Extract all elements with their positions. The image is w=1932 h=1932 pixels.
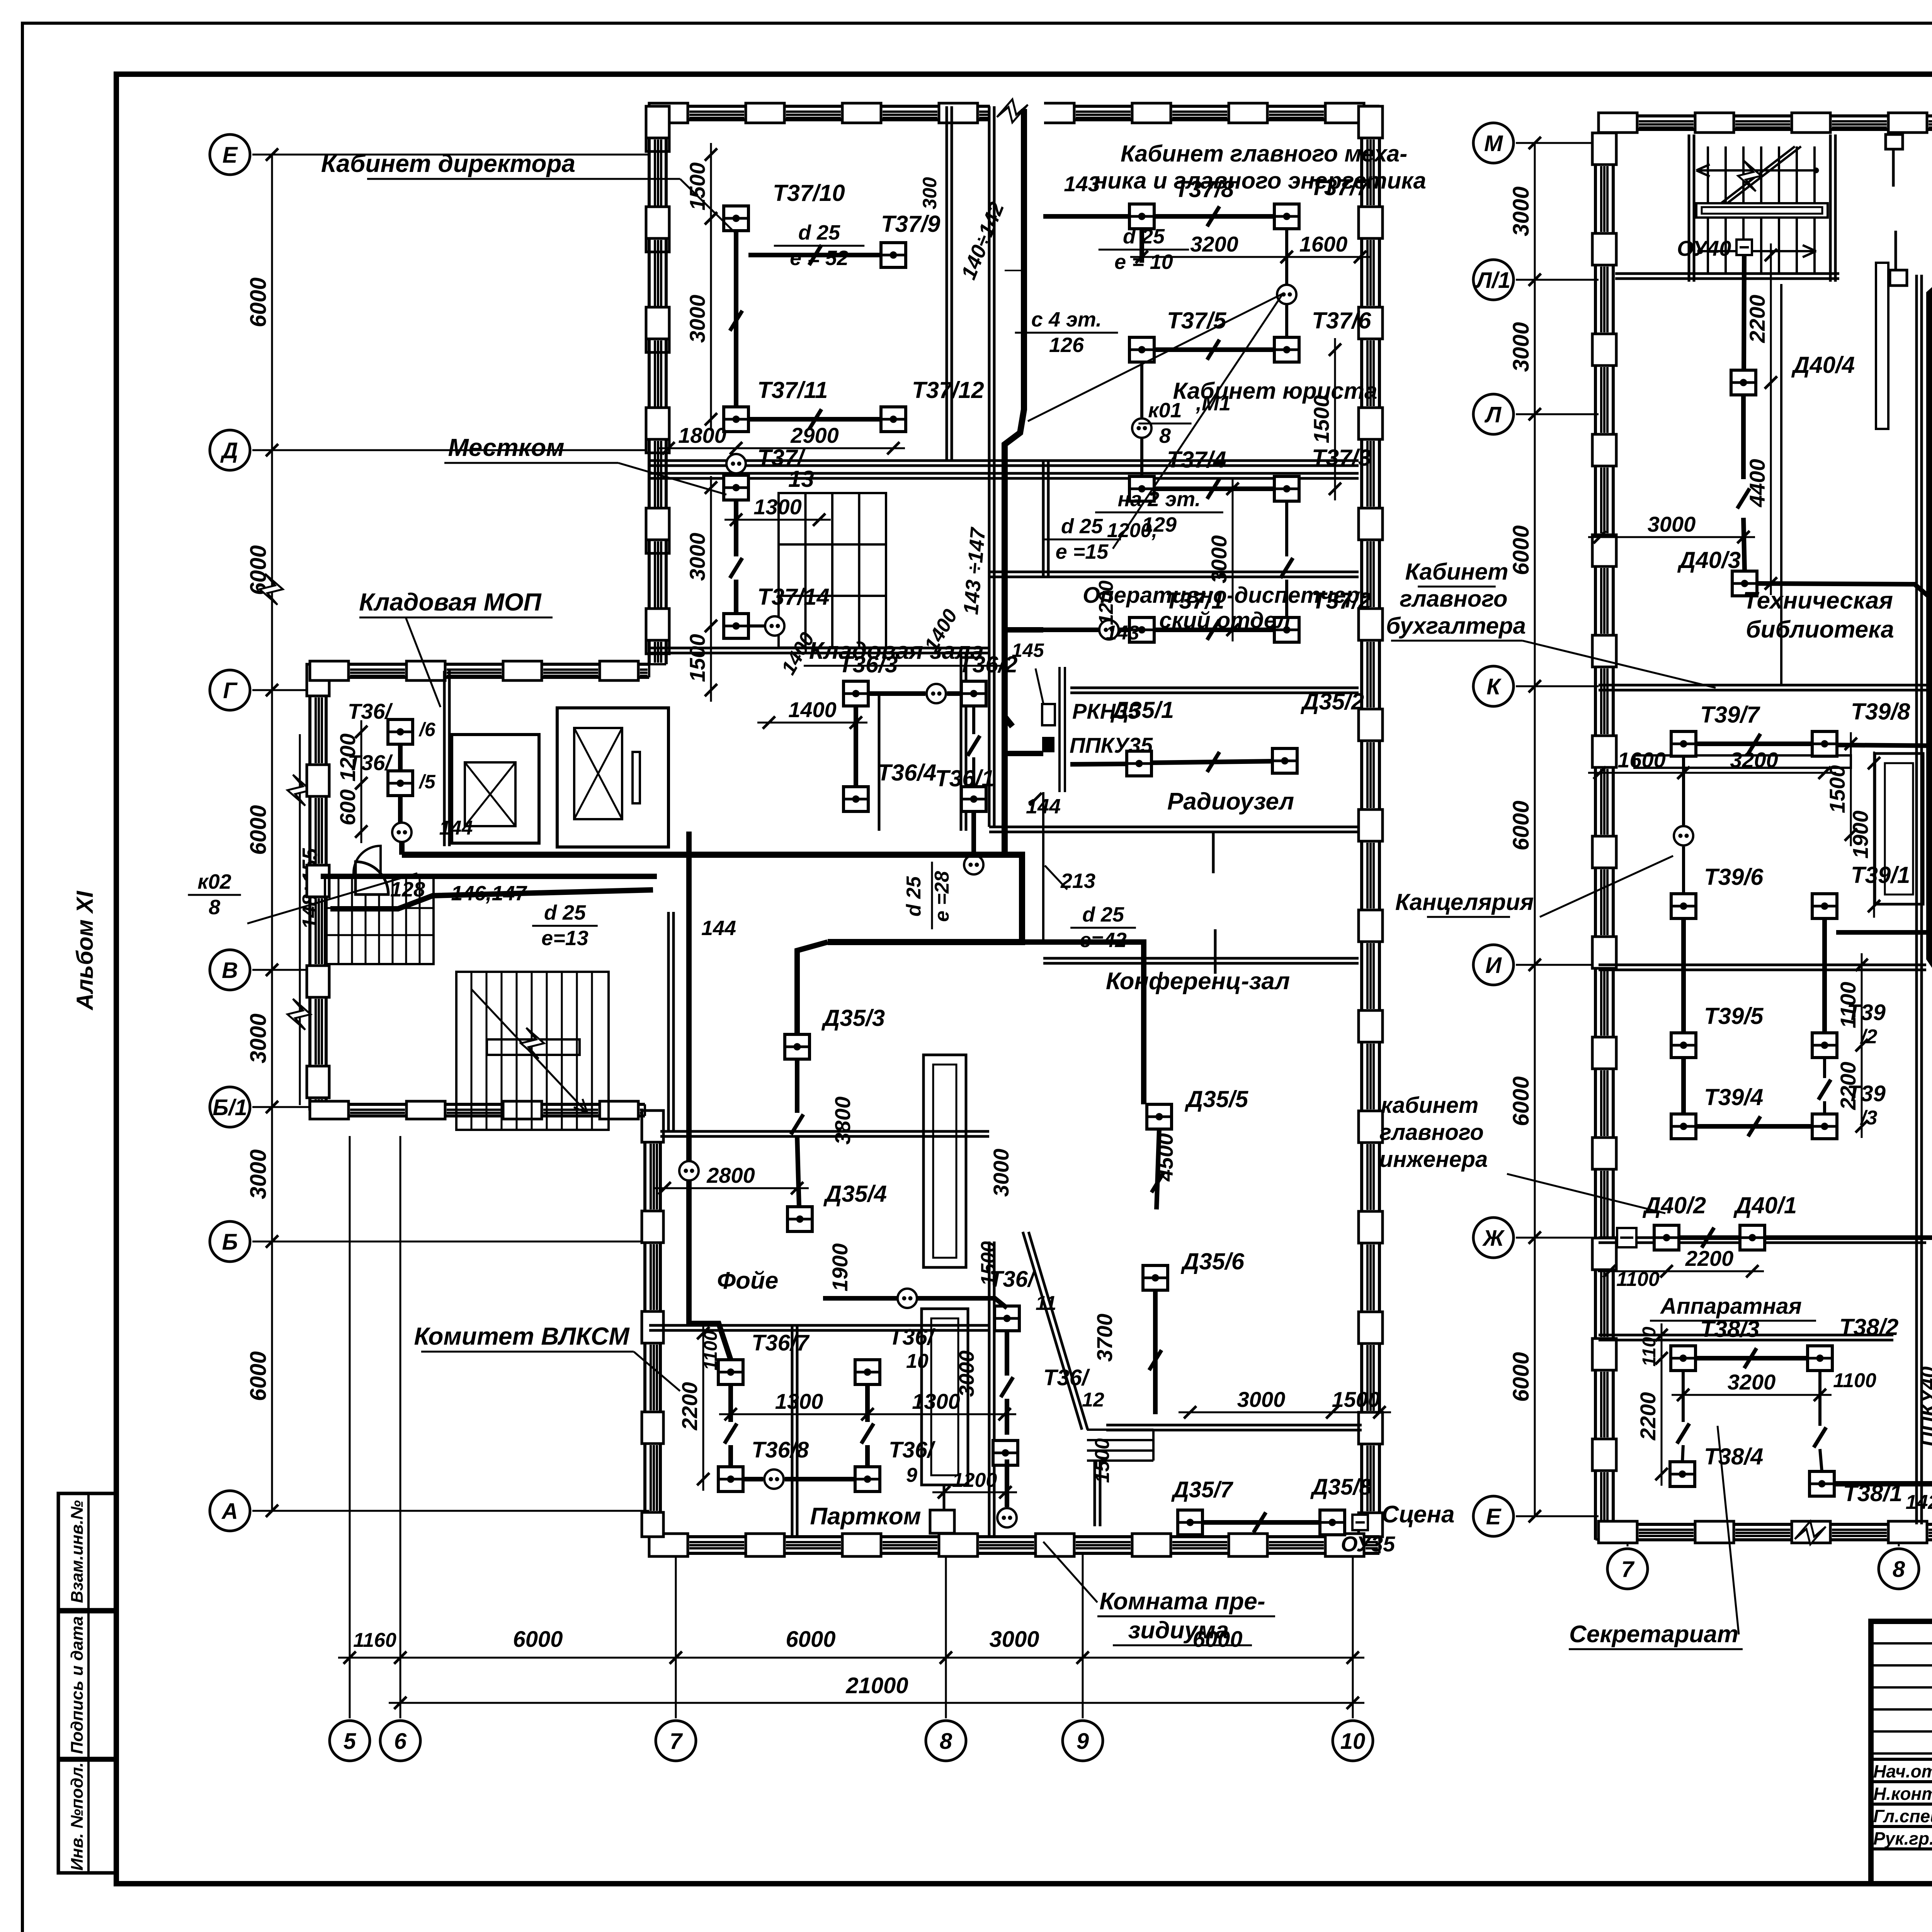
svg-text:Кладовая зала: Кладовая зала xyxy=(809,638,984,664)
svg-text:3000: 3000 xyxy=(1237,1387,1286,1412)
svg-text:Т39/6: Т39/6 xyxy=(1704,864,1764,890)
svg-text:Т38/4: Т38/4 xyxy=(1704,1444,1763,1469)
svg-text:7: 7 xyxy=(1621,1557,1635,1582)
svg-text:3800: 3800 xyxy=(830,1097,855,1145)
svg-text:зидиума: зидиума xyxy=(1128,1617,1229,1644)
svg-text:1500: 1500 xyxy=(1332,1387,1380,1412)
svg-text:6000: 6000 xyxy=(786,1627,835,1652)
svg-text:Д35/2: Д35/2 xyxy=(1300,689,1364,714)
svg-text:300: 300 xyxy=(919,177,940,209)
svg-text:6000: 6000 xyxy=(1509,801,1534,850)
svg-text:Кабинет директора: Кабинет директора xyxy=(321,150,575,177)
svg-text:Т37/10: Т37/10 xyxy=(773,180,845,206)
svg-text:Е: Е xyxy=(1486,1504,1502,1529)
svg-text:d 25: d 25 xyxy=(544,901,586,924)
svg-text:Т39/4: Т39/4 xyxy=(1704,1084,1763,1110)
svg-text:6000: 6000 xyxy=(1509,525,1534,575)
svg-text:1100: 1100 xyxy=(701,1330,721,1371)
svg-text:1100: 1100 xyxy=(1833,1369,1876,1392)
svg-text:1500: 1500 xyxy=(1091,1438,1114,1483)
svg-text:11: 11 xyxy=(1036,1292,1056,1315)
svg-text:Т37/9: Т37/9 xyxy=(881,211,940,237)
svg-text:Т38/2: Т38/2 xyxy=(1839,1314,1898,1340)
svg-text:Т37/11: Т37/11 xyxy=(757,377,828,403)
svg-text:Альбом XI: Альбом XI xyxy=(72,891,98,1011)
svg-text:Т37/5: Т37/5 xyxy=(1167,308,1227,333)
svg-text:9: 9 xyxy=(1077,1729,1089,1754)
svg-text:Т36/1: Т36/1 xyxy=(935,765,994,791)
svg-text:Е: Е xyxy=(223,143,238,168)
svg-text:К: К xyxy=(1486,674,1502,699)
svg-text:3200: 3200 xyxy=(1190,232,1238,256)
svg-text:Т37/3: Т37/3 xyxy=(1312,445,1371,471)
svg-text:Фойе: Фойе xyxy=(717,1267,779,1294)
svg-text:инженера: инженера xyxy=(1379,1147,1488,1172)
svg-text:Кабинет: Кабинет xyxy=(1405,559,1508,585)
svg-text:Кладовая МОП: Кладовая МОП xyxy=(359,588,542,616)
svg-text:Д40/3: Д40/3 xyxy=(1677,547,1741,573)
svg-text:3000: 3000 xyxy=(1207,535,1231,583)
svg-text:Партком: Партком xyxy=(810,1503,921,1530)
svg-text:ОУ40: ОУ40 xyxy=(1677,236,1731,260)
svg-text:Д40/4: Д40/4 xyxy=(1791,352,1855,378)
svg-text:Д40/1: Д40/1 xyxy=(1733,1192,1797,1218)
svg-text:e=42: e=42 xyxy=(1080,929,1127,952)
svg-text:9: 9 xyxy=(906,1464,917,1486)
svg-text:2200: 2200 xyxy=(1745,295,1769,344)
svg-text:e = 52: e = 52 xyxy=(790,247,849,270)
svg-text:2200: 2200 xyxy=(1636,1392,1660,1441)
svg-text:10: 10 xyxy=(906,1350,929,1372)
svg-text:3000: 3000 xyxy=(1509,322,1534,372)
svg-text:Конференц-зал: Конференц-зал xyxy=(1106,968,1290,995)
svg-text:Б/1: Б/1 xyxy=(213,1095,247,1120)
svg-text:В: В xyxy=(222,958,238,983)
svg-text:3200: 3200 xyxy=(1728,1370,1776,1394)
svg-text:/5: /5 xyxy=(418,771,436,793)
svg-text:Т37/12: Т37/12 xyxy=(912,377,984,403)
svg-text:1300: 1300 xyxy=(912,1389,960,1413)
svg-text:Т39/1: Т39/1 xyxy=(1851,862,1910,888)
svg-text:Д35/8: Д35/8 xyxy=(1310,1475,1372,1500)
svg-text:бухгалтера: бухгалтера xyxy=(1386,613,1526,639)
svg-text:1800: 1800 xyxy=(678,423,726,447)
svg-text:3000: 3000 xyxy=(685,533,709,581)
svg-text:e = 10: e = 10 xyxy=(1114,250,1173,274)
svg-text:8: 8 xyxy=(1159,424,1171,447)
svg-text:2800: 2800 xyxy=(706,1163,755,1187)
svg-text:8: 8 xyxy=(940,1729,952,1754)
svg-text:e=13: e=13 xyxy=(541,927,588,950)
svg-text:6: 6 xyxy=(394,1729,407,1754)
svg-text:1500: 1500 xyxy=(977,1241,1000,1286)
svg-text:6000: 6000 xyxy=(513,1627,563,1652)
svg-text:6000: 6000 xyxy=(246,277,271,327)
svg-text:1300: 1300 xyxy=(775,1389,823,1413)
svg-text:3200: 3200 xyxy=(1730,748,1778,772)
svg-text:Б: Б xyxy=(222,1230,238,1255)
svg-text:1500: 1500 xyxy=(685,634,709,682)
svg-text:1400: 1400 xyxy=(788,697,837,722)
svg-text:к02: к02 xyxy=(197,870,231,893)
svg-text:Д35/6: Д35/6 xyxy=(1180,1248,1245,1274)
svg-text:3000: 3000 xyxy=(246,1149,271,1199)
svg-text:ский отдел: ский отдел xyxy=(1159,608,1291,633)
svg-text:библиотека: библиотека xyxy=(1746,616,1894,643)
svg-text:Радиоузел: Радиоузел xyxy=(1167,788,1294,815)
svg-text:128: 128 xyxy=(390,878,425,901)
svg-text:2200: 2200 xyxy=(1836,1062,1860,1111)
svg-text:главного: главного xyxy=(1400,586,1507,612)
svg-text:d 25: d 25 xyxy=(1061,515,1103,538)
svg-text:М: М xyxy=(1484,131,1503,156)
svg-text:7: 7 xyxy=(670,1729,683,1754)
svg-text:Нач.отд.: Нач.отд. xyxy=(1873,1761,1932,1781)
svg-text:Подпись и дата: Подпись и дата xyxy=(68,1616,87,1754)
svg-text:Кабинет главного меха-: Кабинет главного меха- xyxy=(1121,141,1407,167)
svg-text:А: А xyxy=(221,1499,238,1524)
svg-text:Комитет ВЛКСМ: Комитет ВЛКСМ xyxy=(414,1322,630,1350)
svg-text:кабинет: кабинет xyxy=(1381,1093,1479,1118)
svg-text:Техническая: Техническая xyxy=(1743,587,1893,614)
svg-text:Т39/8: Т39/8 xyxy=(1851,699,1910,724)
svg-text:Гл.спец.: Гл.спец. xyxy=(1873,1806,1932,1826)
svg-text:Д35/5: Д35/5 xyxy=(1184,1086,1249,1112)
svg-text:Кабинет юриста: Кабинет юриста xyxy=(1173,378,1378,404)
svg-text:Д35/4: Д35/4 xyxy=(823,1181,887,1207)
svg-text:e =28: e =28 xyxy=(931,871,953,922)
svg-text:Т37/4: Т37/4 xyxy=(1167,447,1226,473)
svg-text:1200: 1200 xyxy=(952,1469,997,1492)
svg-text:5: 5 xyxy=(344,1729,356,1754)
svg-text:Канцелярия: Канцелярия xyxy=(1395,889,1534,915)
svg-text:Н.контр.: Н.контр. xyxy=(1873,1784,1932,1804)
svg-text:6000: 6000 xyxy=(1509,1352,1534,1402)
svg-text:4500: 4500 xyxy=(1153,1133,1177,1182)
svg-text:1100: 1100 xyxy=(1836,982,1860,1028)
svg-text:1600: 1600 xyxy=(1617,748,1666,772)
svg-text:Д35/3: Д35/3 xyxy=(821,1005,885,1031)
svg-text:Секретариат: Секретариат xyxy=(1569,1621,1738,1648)
svg-text:129: 129 xyxy=(1142,513,1177,536)
svg-text:Л/1: Л/1 xyxy=(1475,268,1510,293)
svg-text:ника и главного энергетика: ника и главного энергетика xyxy=(1094,168,1426,194)
svg-text:600: 600 xyxy=(335,789,360,825)
svg-text:Д: Д xyxy=(220,438,238,463)
svg-text:ОУ35: ОУ35 xyxy=(1341,1532,1395,1556)
svg-text:d 25: d 25 xyxy=(903,876,925,917)
svg-text:6000: 6000 xyxy=(246,805,271,855)
svg-text:Т36/8: Т36/8 xyxy=(752,1437,809,1463)
svg-text:Т37/14: Т37/14 xyxy=(757,584,830,610)
svg-text:213: 213 xyxy=(1060,869,1095,893)
svg-text:2900: 2900 xyxy=(790,423,839,447)
svg-text:2200: 2200 xyxy=(677,1382,702,1431)
svg-text:Т36/: Т36/ xyxy=(348,699,393,723)
svg-text:d 25: d 25 xyxy=(798,221,840,244)
svg-text:142: 142 xyxy=(1906,1491,1932,1514)
svg-text:1160: 1160 xyxy=(353,1629,396,1651)
svg-text:1900: 1900 xyxy=(1848,811,1872,859)
svg-text:Т37/6: Т37/6 xyxy=(1312,308,1371,333)
svg-text:Д35/1: Д35/1 xyxy=(1110,697,1174,723)
svg-text:Т36/4: Т36/4 xyxy=(877,760,936,786)
svg-text:3000: 3000 xyxy=(685,295,709,343)
svg-text:8: 8 xyxy=(1893,1557,1905,1582)
svg-text:10: 10 xyxy=(1340,1729,1366,1754)
svg-text:d 25: d 25 xyxy=(1082,903,1124,926)
svg-text:3000: 3000 xyxy=(989,1149,1013,1197)
svg-text:13: 13 xyxy=(788,466,814,492)
svg-text:3700: 3700 xyxy=(1092,1314,1117,1362)
svg-text:21000: 21000 xyxy=(845,1673,908,1698)
svg-text:1200: 1200 xyxy=(335,733,360,782)
svg-text:1100: 1100 xyxy=(1639,1327,1660,1367)
svg-text:главного: главного xyxy=(1379,1120,1484,1145)
svg-text:3000: 3000 xyxy=(989,1627,1039,1652)
svg-text:Т36/7: Т36/7 xyxy=(752,1330,810,1355)
svg-text:Местком: Местком xyxy=(448,434,564,461)
svg-text:4400: 4400 xyxy=(1745,459,1769,508)
svg-text:И: И xyxy=(1485,953,1502,978)
svg-text:ППКУ40: ППКУ40 xyxy=(1917,1366,1932,1447)
svg-text:Д40/2: Д40/2 xyxy=(1642,1192,1706,1218)
svg-text:1100: 1100 xyxy=(1616,1268,1660,1291)
svg-text:1600: 1600 xyxy=(1299,232,1348,256)
svg-text:Аппаратная: Аппаратная xyxy=(1660,1294,1802,1319)
svg-text:1500: 1500 xyxy=(1825,765,1849,813)
svg-text:3000: 3000 xyxy=(246,1014,271,1063)
svg-text:Инв. №подл.: Инв. №подл. xyxy=(68,1762,87,1871)
svg-text:Т36/: Т36/ xyxy=(889,1325,936,1350)
svg-text:e =15: e =15 xyxy=(1056,540,1109,563)
svg-text:2200: 2200 xyxy=(1685,1246,1734,1270)
svg-text:Комната пре-: Комната пре- xyxy=(1099,1588,1265,1615)
svg-text:Сцена: Сцена xyxy=(1382,1501,1455,1528)
svg-text:3000: 3000 xyxy=(1648,512,1696,536)
svg-text:Т36/: Т36/ xyxy=(1043,1365,1090,1390)
svg-text:Т39/7: Т39/7 xyxy=(1700,702,1760,728)
svg-text:6000: 6000 xyxy=(1509,1076,1534,1126)
svg-text:/6: /6 xyxy=(418,719,436,740)
svg-text:1900: 1900 xyxy=(828,1243,852,1292)
svg-text:Л: Л xyxy=(1484,402,1502,427)
svg-text:1300: 1300 xyxy=(753,495,802,519)
svg-text:с 4 эт.: с 4 эт. xyxy=(1031,308,1102,331)
svg-text:Г: Г xyxy=(223,678,238,703)
svg-text:Оперативно-диспетчер-: Оперативно-диспетчер- xyxy=(1083,583,1367,608)
svg-text:Т39/5: Т39/5 xyxy=(1704,1003,1764,1029)
svg-text:12: 12 xyxy=(1082,1389,1104,1411)
svg-text:d 25: d 25 xyxy=(1123,225,1165,248)
svg-text:на 2 эт.: на 2 эт. xyxy=(1118,488,1201,511)
svg-text:126: 126 xyxy=(1049,333,1084,357)
svg-text:3000: 3000 xyxy=(1509,186,1534,236)
svg-text:Взам.инв.№: Взам.инв.№ xyxy=(68,1500,87,1603)
svg-text:Ж: Ж xyxy=(1482,1226,1505,1251)
svg-text:6000: 6000 xyxy=(246,1351,271,1401)
svg-text:Рук.гр.: Рук.гр. xyxy=(1873,1828,1932,1849)
svg-text:8: 8 xyxy=(209,896,220,919)
svg-text:144: 144 xyxy=(701,917,736,940)
svg-text:Т36/: Т36/ xyxy=(889,1437,936,1463)
svg-text:Д35/7: Д35/7 xyxy=(1171,1477,1234,1502)
svg-text:144: 144 xyxy=(439,817,473,839)
svg-text:145: 145 xyxy=(1012,639,1044,661)
